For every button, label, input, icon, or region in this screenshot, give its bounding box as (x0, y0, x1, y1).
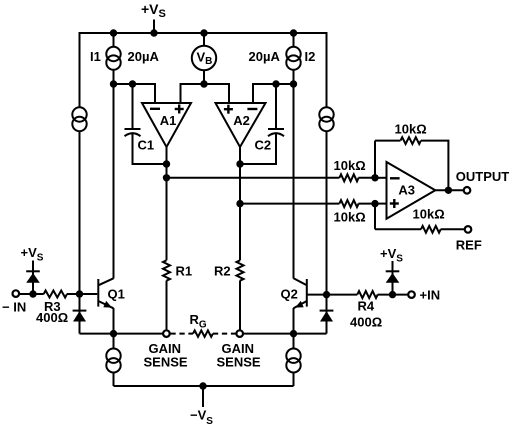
node A3 inverting input (371, 174, 386, 181)
svg-text:20µA: 20µA (249, 49, 281, 64)
resistor R3 (44, 291, 67, 298)
wire feedback top left (375, 140, 400, 142)
wire I1 bottom to A1 inverting input (110, 80, 155, 103)
capacitor C2 (240, 84, 284, 164)
wire A1 output to A3 inverting resistor (167, 177, 340, 179)
wire R1 to gain sense left (166, 281, 168, 331)
svg-text:C2: C2 (255, 137, 272, 152)
label A1 plus (175, 105, 184, 114)
svg-text:400Ω: 400Ω (350, 315, 382, 330)
svg-text:R4: R4 (358, 299, 375, 314)
svg-text:Q1: Q1 (108, 287, 125, 302)
wire I2 bottom to A2 inverting input (253, 80, 297, 103)
svg-text:A1: A1 (160, 113, 177, 128)
resistor 10k REF (421, 226, 441, 233)
wire left outer vertical to Q1 base node (79, 132, 81, 295)
diode D4 to +VS (right input clamp) (386, 261, 400, 295)
svg-text:20µA: 20µA (128, 49, 160, 64)
diode D2 left base clamp (73, 294, 87, 334)
wire R4 to +IN (378, 291, 408, 298)
wire right outer vertical to Q2 base node (326, 132, 328, 295)
resistor R1 (163, 260, 170, 280)
current source left mid (tail) (72, 107, 86, 131)
svg-text:10kΩ: 10kΩ (334, 210, 366, 225)
svg-text:400Ω: 400Ω (36, 310, 68, 325)
wire to A3 inverting node (358, 177, 375, 179)
node VB top junction (200, 29, 207, 36)
svg-text:− IN: − IN (2, 300, 26, 315)
svg-text:R1: R1 (176, 264, 193, 279)
wire R3 to Q1 base (67, 290, 97, 297)
node I1 top junction (110, 29, 117, 36)
label A3 plus (390, 199, 399, 208)
wire feedback left vertical (374, 141, 376, 178)
terminal OUTPUT (464, 187, 471, 194)
wire dashed RG right (213, 333, 236, 335)
svg-text:10kΩ: 10kΩ (334, 158, 366, 173)
svg-text:Q2: Q2 (281, 287, 298, 302)
wire REF branch vertical (374, 204, 376, 230)
node A3 noninverting input (371, 200, 386, 207)
diode D1 to +VS (left input clamp) (26, 261, 40, 295)
resistor 10k lower input (339, 200, 358, 207)
wire R2 to gain sense right (239, 281, 241, 331)
terminal -IN (13, 290, 20, 297)
wire -IN to R3 (19, 293, 44, 295)
label A2 minus (247, 108, 257, 110)
wire Q2 base to R4 (307, 291, 358, 298)
resistor 10k feedback (401, 137, 421, 144)
wire feedback top right and down to output (421, 141, 449, 191)
op-amp A3 (387, 162, 436, 219)
op-amp A2 (216, 103, 266, 147)
resistor RG (193, 330, 213, 336)
node I2 top junction (290, 29, 297, 36)
wire top supply rail (80, 33, 327, 107)
terminal REF (465, 226, 472, 233)
svg-text:A2: A2 (233, 113, 250, 128)
node +VS stub junction (150, 20, 157, 37)
current source right mid (tail) (319, 107, 333, 131)
svg-text:10kΩ: 10kΩ (395, 122, 427, 137)
wire bottom -VS rail (114, 385, 294, 387)
label A1 minus (150, 108, 160, 110)
resistor R2 (237, 260, 244, 280)
wire gain sense left (80, 330, 163, 337)
label A3 minus (390, 177, 400, 179)
voltage source VB (192, 33, 216, 84)
terminal GAIN SENSE left (163, 330, 170, 337)
diode D3 right base clamp (320, 295, 334, 334)
wire I2 vertical / Q2 collector (293, 33, 295, 279)
resistor R4 (357, 291, 377, 298)
wire to A3 noninverting node (358, 203, 375, 205)
svg-text:R2: R2 (214, 264, 231, 279)
svg-text:I1: I1 (90, 49, 101, 64)
wire gain sense right (243, 330, 326, 337)
current source I1 (106, 47, 120, 70)
wire I1 vertical / Q1 collector (113, 33, 115, 279)
svg-text:OUTPUT: OUTPUT (456, 169, 510, 184)
op-amp A1 (142, 103, 191, 147)
svg-text:A3: A3 (398, 182, 415, 197)
wire VB to A1 and A2 noninverting inputs (181, 80, 230, 103)
terminal GAIN SENSE right (236, 330, 243, 337)
wire REF horizontal (375, 228, 421, 230)
node -VS stub (199, 382, 206, 407)
label A2 plus (224, 105, 233, 114)
resistor 10k upper input (339, 174, 358, 181)
svg-text:I2: I2 (305, 49, 316, 64)
svg-text:SENSE: SENSE (217, 355, 261, 370)
svg-text:REF: REF (456, 238, 482, 253)
capacitor C1 (125, 84, 167, 164)
wire dashed RG left (170, 333, 193, 335)
svg-text:SENSE: SENSE (144, 355, 188, 370)
terminal +IN (408, 291, 415, 298)
wire A2 output to A3 noninverting resistor (240, 203, 339, 205)
current source I2 (286, 47, 300, 70)
current source left emitter tail (106, 334, 120, 386)
current source right emitter tail (286, 334, 300, 386)
svg-text:10kΩ: 10kΩ (413, 207, 445, 222)
svg-text:C1: C1 (138, 138, 155, 153)
wire A3 output (435, 187, 463, 194)
wire A1 output to R1 (163, 147, 170, 260)
svg-text:+IN: +IN (420, 288, 441, 303)
node -IN diode junction (29, 290, 36, 297)
wire REF to terminal (441, 228, 465, 230)
transistor Q2 (294, 278, 307, 333)
transistor Q1 (98, 278, 113, 333)
wire A2 output to R2 (236, 147, 243, 260)
